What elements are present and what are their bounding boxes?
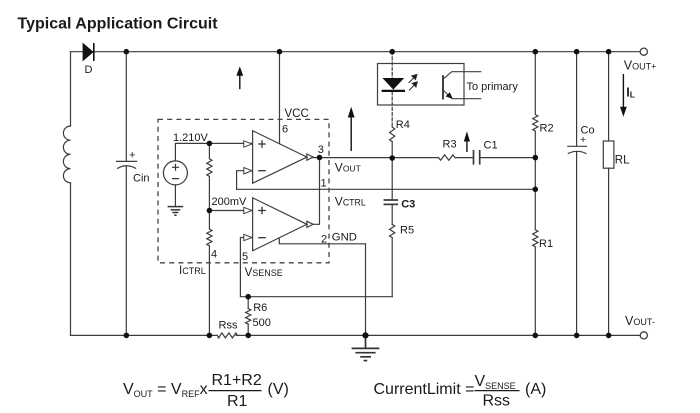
wire bottom rail left <box>71 334 218 336</box>
op-amp U1A minus symbol <box>258 170 266 172</box>
svg-text:5: 5 <box>242 251 248 263</box>
terminal VOUT- <box>640 332 647 339</box>
capacitor Cin <box>117 161 137 168</box>
node R1 bottom junction <box>533 333 539 339</box>
node R4/R3 VOUT junction <box>389 155 395 161</box>
svg-text:RL: RL <box>615 155 630 167</box>
svg-text:(V): (V) <box>268 381 289 398</box>
wire LED cathode to R4 <box>391 92 393 127</box>
wire RL bottom <box>608 168 610 335</box>
svg-text:R4: R4 <box>396 119 410 131</box>
svg-text:(A): (A) <box>525 381 546 398</box>
wire 200mV node <box>209 210 252 212</box>
wire R6 top <box>247 297 249 309</box>
node VCC rail junction <box>277 49 283 55</box>
opto emitter arrowhead <box>446 92 453 99</box>
opto LED <box>382 78 405 91</box>
wire source to ground <box>174 185 176 207</box>
svg-text:GND: GND <box>332 232 357 244</box>
op-amp U1A triangle <box>253 131 314 184</box>
capacitor C1 <box>474 151 480 164</box>
node ground junction <box>362 332 368 338</box>
wire C3 to R5 <box>391 204 393 224</box>
svg-text:VOUT-: VOUT- <box>625 314 655 328</box>
capacitor Co <box>568 146 587 153</box>
IC dashed box <box>158 119 329 262</box>
svg-text:Rss: Rss <box>483 393 511 410</box>
diode D <box>83 43 94 62</box>
wire GND pin line <box>279 239 365 336</box>
svg-text:R1: R1 <box>539 238 553 250</box>
arrow up (between R3 and C1) <box>464 131 470 152</box>
resistor Rdiv2 / ICTRL pin4 line <box>207 211 212 336</box>
wire R6 bottom <box>247 324 249 335</box>
node RL top rail junction <box>606 49 612 55</box>
resistor R2 <box>533 52 538 189</box>
opto LED light arrow lower <box>409 82 417 91</box>
terminal VOUT+ <box>640 48 647 55</box>
node Cin top junction <box>124 49 130 55</box>
wire RL top <box>608 52 610 141</box>
formula 1: VOUT = VREF x (R1+R2)/R1 (V) <box>123 372 289 410</box>
op-amp U1B minus symbol <box>258 237 266 239</box>
svg-text:+: + <box>580 134 586 146</box>
node 1.210V junction <box>207 141 213 147</box>
resistor Rdiv1 <box>207 143 212 210</box>
wire left vertical bottom <box>70 183 72 336</box>
svg-text:Rss: Rss <box>219 320 238 332</box>
svg-text:R1+R2: R1+R2 <box>212 372 262 389</box>
node RL bottom junction <box>606 333 612 339</box>
node Rss left junction <box>207 333 213 339</box>
opto phototransistor Q1 <box>443 72 481 100</box>
wire bottom rail right <box>236 334 640 336</box>
wire C1 to R2 node <box>480 157 535 159</box>
arrow up (right of IC box) <box>348 107 355 151</box>
svg-text:500: 500 <box>253 317 271 329</box>
node VCTRL/R1/R2 junction <box>533 187 539 193</box>
node Co top rail junction <box>574 49 580 55</box>
wire opto branch top <box>391 52 393 78</box>
svg-text:3: 3 <box>318 144 324 156</box>
resistor R5 <box>390 224 395 237</box>
voltage source plus/minus <box>172 164 179 179</box>
node R2 top rail junction <box>533 49 539 55</box>
wire pin3 down to opamp2 output <box>313 158 319 225</box>
ground (voltage source) <box>168 207 184 216</box>
wire 1.210V node <box>175 143 252 161</box>
svg-text:D: D <box>85 64 93 76</box>
wire Cin top <box>125 52 127 161</box>
resistor R4 <box>390 127 395 142</box>
wire Cin bottom <box>125 167 127 336</box>
optocoupler box <box>378 64 465 106</box>
inductor L1 <box>63 126 70 183</box>
node 200mV junction <box>207 208 213 214</box>
svg-text:6: 6 <box>282 123 288 135</box>
arrow down IL <box>620 74 627 117</box>
wire R4 to VOUT node <box>391 142 393 158</box>
node Co bottom junction <box>574 333 580 339</box>
svg-text:4: 4 <box>211 249 217 261</box>
svg-text:VOUT: VOUT <box>335 161 361 175</box>
svg-text:R2: R2 <box>540 123 554 135</box>
arrow up (left of VCC) <box>236 66 243 89</box>
wire opamp2 inverting feedback to pin5 <box>240 238 392 297</box>
wire opamp1 inverting feedback <box>237 171 253 190</box>
ground (main GND) <box>352 335 380 360</box>
node C1/R2 junction <box>533 155 539 161</box>
wire VCTRL line <box>237 188 536 190</box>
wire Co bottom <box>576 152 578 335</box>
node pin3 VOUT junction <box>317 155 323 161</box>
svg-text:VCC: VCC <box>285 108 309 120</box>
svg-text:ICTRL: ICTRL <box>179 265 206 277</box>
svg-text:CurrentLimit =: CurrentLimit = <box>374 381 475 398</box>
svg-text:VOUT+: VOUT+ <box>624 59 657 73</box>
svg-text:1.210V: 1.210V <box>173 132 209 144</box>
node opto anode rail junction <box>389 49 395 55</box>
svg-text:R3: R3 <box>443 139 457 151</box>
op-amp U1A plus symbol <box>258 140 266 148</box>
wire VOUT node down to C3 <box>391 158 393 200</box>
wire VOUT line <box>313 157 438 159</box>
svg-text:R5: R5 <box>400 225 414 237</box>
op-amp U1B triangle <box>253 198 314 251</box>
opto LED light arrow upper <box>409 75 417 84</box>
svg-text:Cin: Cin <box>133 173 150 185</box>
svg-text:C3: C3 <box>401 198 415 210</box>
op-amp U1B input arrows <box>244 207 252 240</box>
svg-text:R6: R6 <box>253 302 267 314</box>
svg-text:R1: R1 <box>227 393 248 410</box>
resistor R1 <box>533 189 538 335</box>
svg-text:2: 2 <box>321 233 327 245</box>
wire left vertical top <box>70 52 72 126</box>
resistor RL body <box>603 141 614 168</box>
svg-text:+: + <box>129 150 135 162</box>
node Rss right / R6 bottom junction <box>245 333 251 339</box>
formula 2: CurrentLimit = VSENSE / Rss (A) <box>374 373 547 410</box>
svg-text:To primary: To primary <box>467 81 519 93</box>
svg-text:VCTRL: VCTRL <box>335 195 366 209</box>
resistor Rss <box>217 333 237 338</box>
op-amp U1B plus symbol <box>258 207 266 215</box>
svg-text:200mV: 200mV <box>212 196 248 208</box>
wire R3 to C1 <box>455 157 473 159</box>
capacitor C3 <box>384 200 397 204</box>
svg-text:Typical Application Circuit: Typical Application Circuit <box>18 16 219 33</box>
wire VCC branch <box>279 52 281 144</box>
svg-text:1: 1 <box>321 178 327 190</box>
wire Co top <box>576 52 578 146</box>
node R6 top VSENSE junction <box>245 294 251 300</box>
op-amp U1A input arrows <box>244 141 252 174</box>
voltage source VREF circle <box>163 161 187 185</box>
wire R5 to VSENSE line <box>391 238 393 297</box>
wire top rail <box>71 51 641 53</box>
svg-text:VSENSE: VSENSE <box>245 267 283 279</box>
svg-text:C1: C1 <box>484 140 498 152</box>
node Cin bottom junction <box>124 333 130 339</box>
resistor R3 <box>439 155 456 160</box>
resistor R6 <box>246 309 251 324</box>
